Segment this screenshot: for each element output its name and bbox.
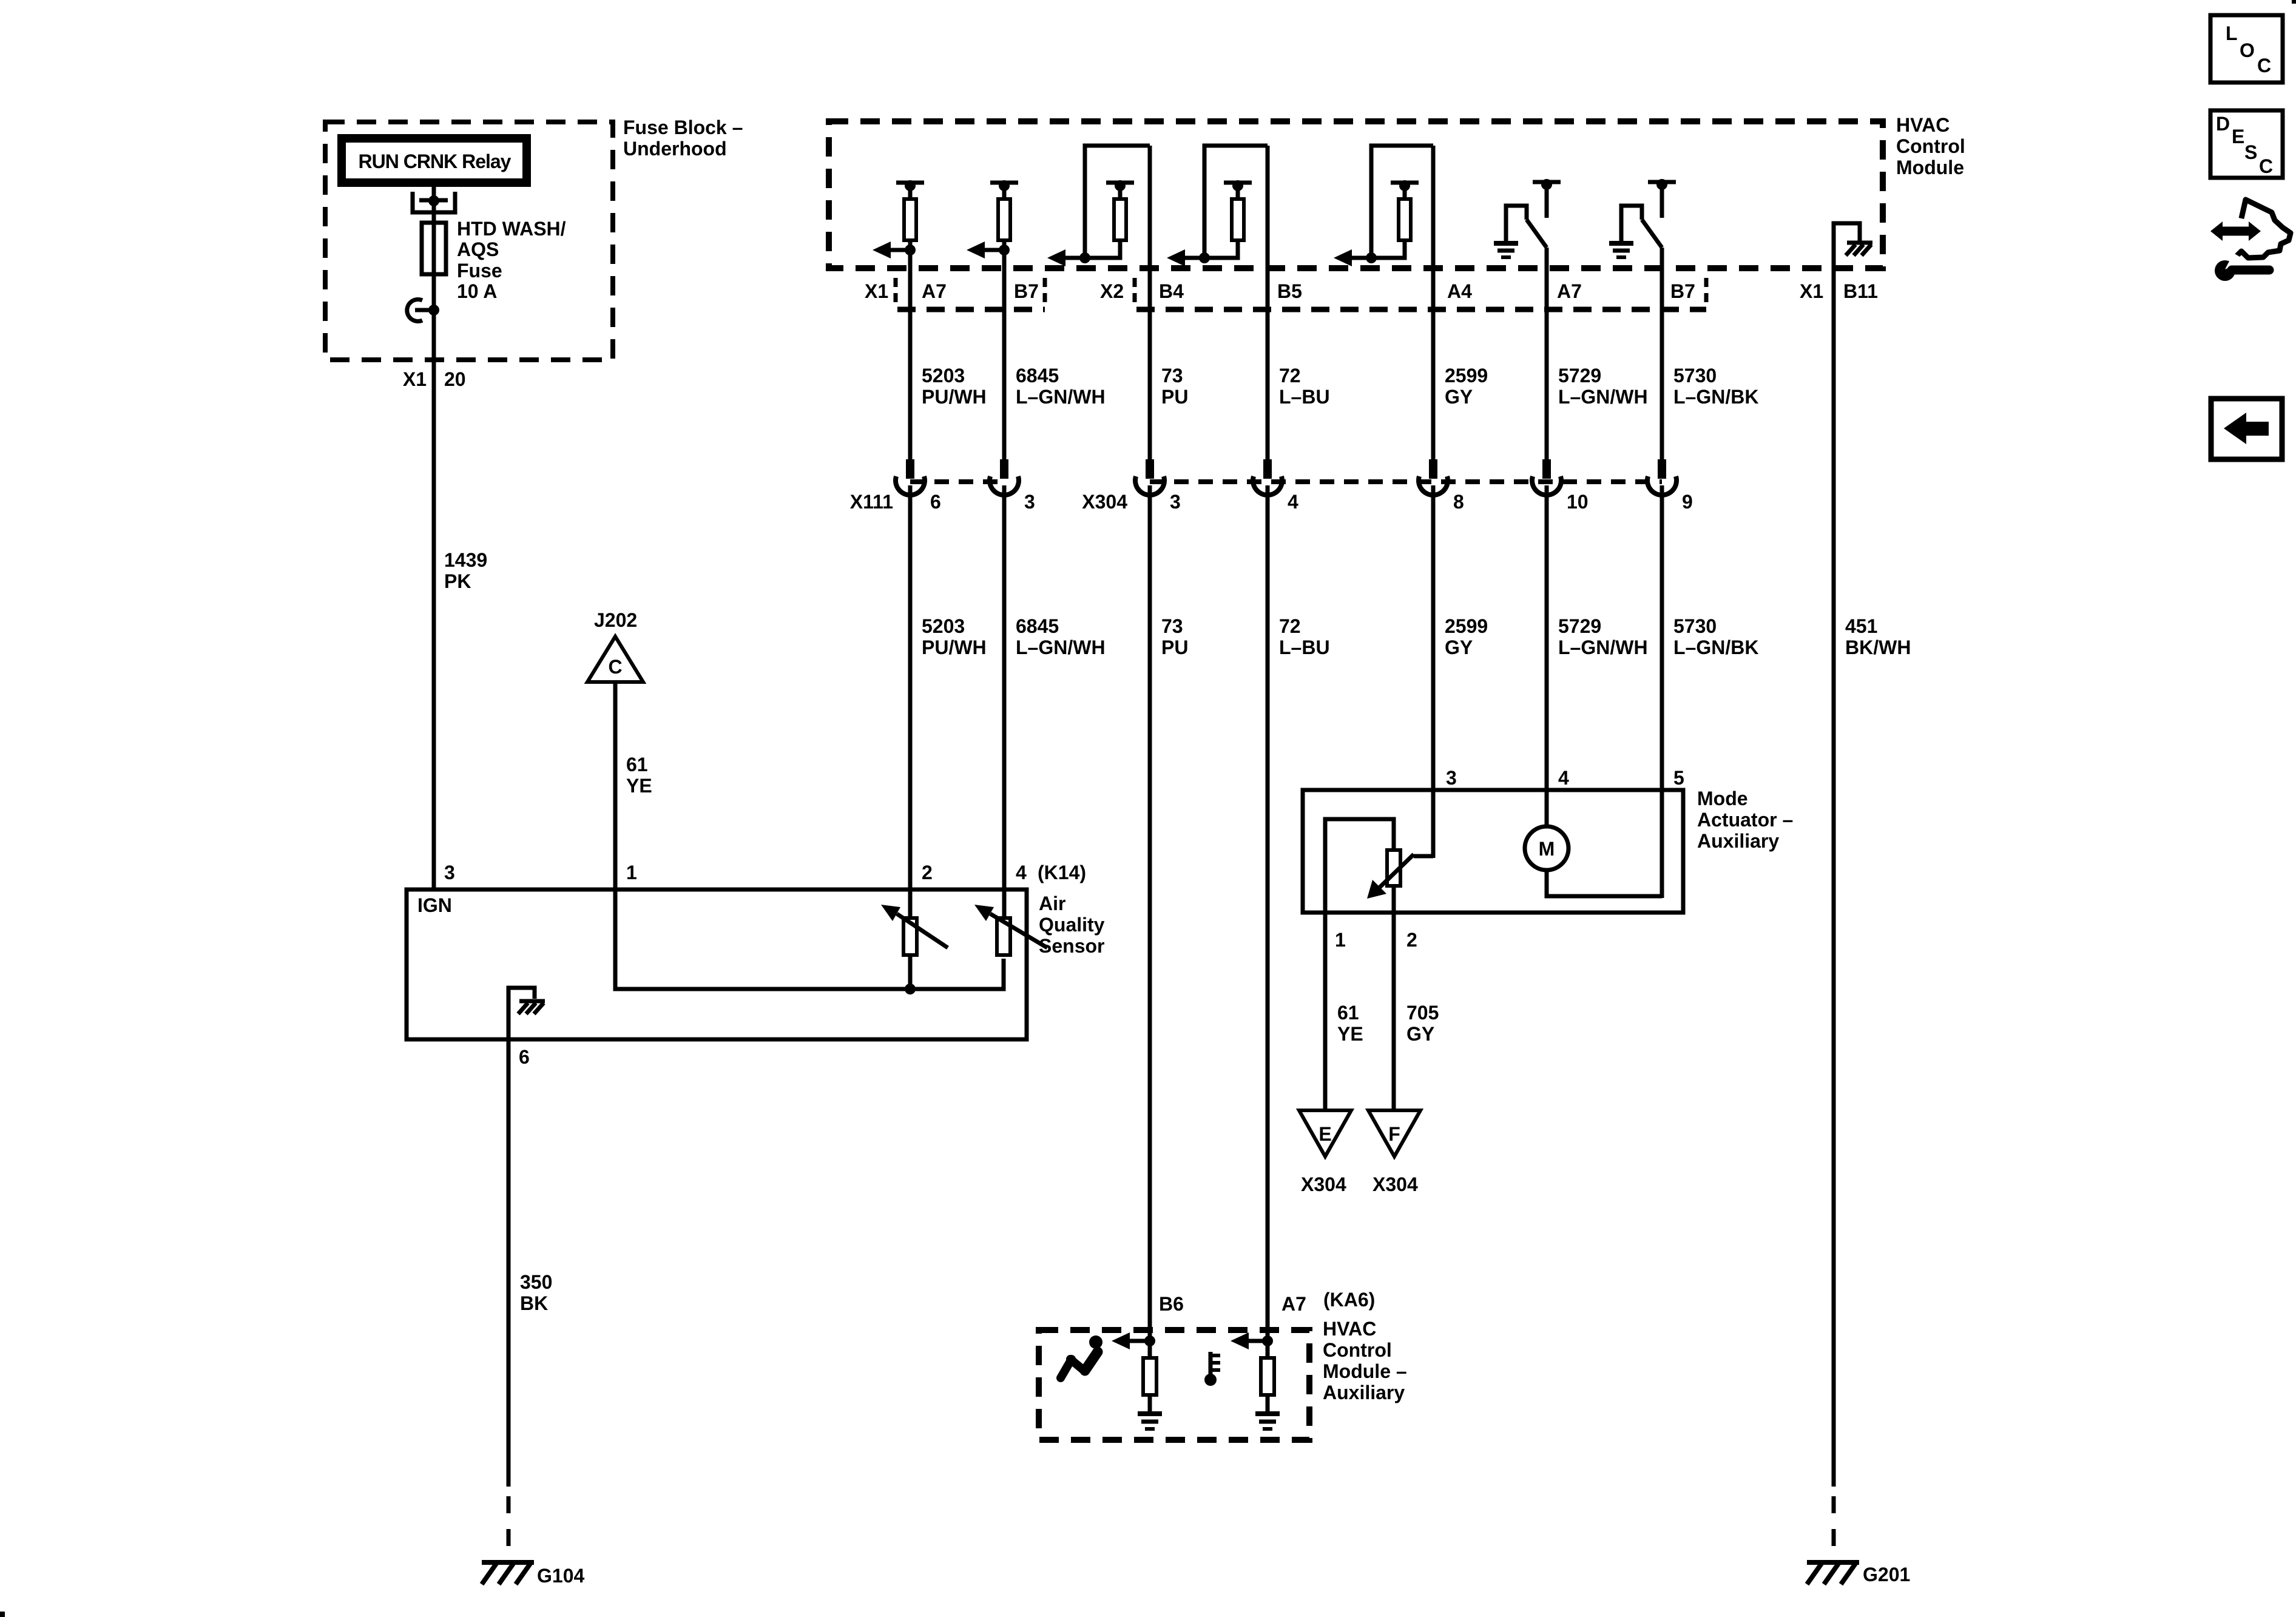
wire dashed to G201 <box>1832 1487 1836 1562</box>
svg-text:3: 3 <box>1446 767 1457 789</box>
svg-text:O: O <box>2240 39 2255 61</box>
wire 72 L-BU to KA6 A7 <box>1266 485 1270 1360</box>
wire 705 GY to splice F <box>1392 913 1396 1112</box>
svg-text:5729: 5729 <box>1558 615 1601 637</box>
svg-text:2599: 2599 <box>1445 365 1488 387</box>
connector terminal X304-9 <box>1647 459 1676 495</box>
svg-text:A7: A7 <box>922 280 947 302</box>
svg-text:3: 3 <box>444 862 455 883</box>
variable resistor at pin 4 <box>974 905 1047 955</box>
wiper arrow from pin 3 <box>1414 854 1433 859</box>
svg-text:L–GN/WH: L–GN/WH <box>1016 636 1106 658</box>
svg-text:M: M <box>1539 838 1555 860</box>
Fuse Block - Underhood dashed box <box>325 122 613 360</box>
svg-text:(K14): (K14) <box>1038 862 1086 883</box>
connector terminal X304-4 <box>1253 459 1282 495</box>
internal wire pin1 to resistor bottoms <box>615 890 1004 989</box>
motor M <box>1525 826 1568 870</box>
wire pin B5 X2 <box>1266 146 1270 461</box>
icon DESC box <box>2210 110 2283 178</box>
svg-text:G201: G201 <box>1863 1564 1910 1585</box>
svg-text:B7: B7 <box>1014 280 1039 302</box>
svg-text:6: 6 <box>519 1046 530 1068</box>
svg-text:L–BU: L–BU <box>1279 386 1330 408</box>
svg-text:4: 4 <box>1288 491 1298 513</box>
svg-text:C: C <box>608 656 622 678</box>
svg-text:PU/WH: PU/WH <box>922 636 987 658</box>
Mode Actuator Auxiliary box <box>1303 790 1683 913</box>
svg-text:1439: 1439 <box>444 549 487 571</box>
svg-text:Control: Control <box>1896 135 1965 157</box>
svg-text:5203: 5203 <box>922 365 965 387</box>
svg-text:BK: BK <box>520 1292 548 1314</box>
svg-text:BK/WH: BK/WH <box>1845 636 1911 658</box>
svg-text:GY: GY <box>1445 636 1473 658</box>
svg-text:L–GN/WH: L–GN/WH <box>1016 386 1106 408</box>
svg-text:S: S <box>2244 141 2257 163</box>
svg-text:705: 705 <box>1406 1002 1439 1024</box>
svg-text:Underhood: Underhood <box>623 138 727 160</box>
wire pin B4 X2 <box>1148 146 1152 461</box>
svg-text:YE: YE <box>626 775 652 797</box>
svg-text:Fuse Block –: Fuse Block – <box>623 116 743 138</box>
svg-text:X1: X1 <box>403 368 427 390</box>
svg-text:YE: YE <box>1337 1023 1363 1045</box>
svg-text:X111: X111 <box>850 491 893 513</box>
svg-text:X1: X1 <box>865 280 888 302</box>
svg-text:L–BU: L–BU <box>1279 636 1330 658</box>
svg-text:1: 1 <box>626 862 637 883</box>
pin band separators <box>894 278 898 307</box>
pin band bottom dashed lines <box>897 307 1045 312</box>
switch internal to ground at pin B7 X2 <box>1609 179 1676 257</box>
svg-text:5730: 5730 <box>1673 365 1717 387</box>
ground internal chassis at pin B11 <box>1834 223 1872 271</box>
svg-text:5729: 5729 <box>1558 365 1601 387</box>
icon LOC box <box>2210 15 2283 83</box>
wire pin B7 X1 <box>1002 250 1007 461</box>
svg-text:72: 72 <box>1279 365 1301 387</box>
svg-text:B5: B5 <box>1277 280 1302 302</box>
wire pin A4 X2 <box>1431 146 1436 461</box>
svg-text:HVAC: HVAC <box>1896 114 1950 136</box>
svg-text:B4: B4 <box>1159 280 1184 302</box>
wire pin A7 X1 <box>908 250 913 461</box>
svg-text:Fuse: Fuse <box>457 260 502 282</box>
svg-text:B6: B6 <box>1159 1293 1184 1315</box>
svg-text:A7: A7 <box>1281 1293 1306 1315</box>
svg-text:L–GN/WH: L–GN/WH <box>1558 386 1648 408</box>
wire 2599 GY to mode actuator pin 3 <box>1431 485 1436 858</box>
svg-text:E: E <box>2232 126 2244 147</box>
svg-text:B11: B11 <box>1843 280 1878 302</box>
svg-text:IGN: IGN <box>417 894 452 916</box>
svg-text:5730: 5730 <box>1673 615 1717 637</box>
fuse clip top <box>413 192 455 212</box>
svg-text:E: E <box>1319 1123 1331 1145</box>
node B6 junction with arrow <box>1144 1335 1155 1346</box>
svg-text:2: 2 <box>1406 929 1417 951</box>
wire 5729 to mode actuator pin 4 <box>1545 485 1549 828</box>
ground internal chassis pin 6 <box>508 988 545 1039</box>
resistor internal pullup at pin B7 X1 <box>967 180 1018 258</box>
svg-text:4: 4 <box>1016 862 1027 883</box>
svg-text:20: 20 <box>444 368 466 390</box>
inline connector X304 dashed link <box>1150 479 1662 484</box>
svg-text:AQS: AQS <box>457 238 499 260</box>
svg-text:(KA6): (KA6) <box>1323 1289 1375 1311</box>
svg-text:A4: A4 <box>1447 280 1472 302</box>
svg-text:A7: A7 <box>1557 280 1582 302</box>
svg-text:C: C <box>2257 55 2271 76</box>
svg-text:X1: X1 <box>1800 280 1823 302</box>
svg-text:PK: PK <box>444 570 471 592</box>
connector terminal X111-3 <box>990 459 1019 495</box>
wire 61 YE from J202 <box>613 682 618 890</box>
svg-text:X304: X304 <box>1082 491 1127 513</box>
HVAC Control Module dashed box <box>829 121 1883 268</box>
svg-text:Auxiliary: Auxiliary <box>1323 1382 1405 1403</box>
relay K RUN CRNK Relay box <box>337 134 531 187</box>
wire 5203 to AQS pin 2 <box>908 485 913 918</box>
svg-text:1: 1 <box>1335 929 1346 951</box>
connector terminal X111-6 <box>896 459 925 495</box>
wire motor to pin 5 <box>1547 870 1662 896</box>
svg-text:73: 73 <box>1161 615 1183 637</box>
svg-text:451: 451 <box>1845 615 1877 637</box>
wire 451 BK/WH from B11 to G201 <box>1832 271 1836 1487</box>
svg-text:6845: 6845 <box>1016 615 1059 637</box>
wire 73 PU to KA6 B6 <box>1148 485 1152 1360</box>
svg-text:Air: Air <box>1039 893 1065 914</box>
svg-text:2599: 2599 <box>1445 615 1488 637</box>
svg-text:X2: X2 <box>1100 280 1124 302</box>
icon hand with double arrow and wrench <box>2210 200 2291 281</box>
wire 5730 to mode actuator pin 5 <box>1660 485 1664 898</box>
svg-text:Module –: Module – <box>1323 1360 1407 1382</box>
splice triangle E <box>1299 1110 1351 1156</box>
resistor internal B6 <box>1143 1358 1156 1395</box>
svg-text:3: 3 <box>1024 491 1035 513</box>
svg-text:Actuator –: Actuator – <box>1697 809 1793 831</box>
svg-text:B7: B7 <box>1670 280 1695 302</box>
svg-text:L–GN/WH: L–GN/WH <box>1558 636 1648 658</box>
wire pin A7 X2 <box>1545 248 1549 461</box>
svg-text:HVAC: HVAC <box>1323 1318 1376 1340</box>
connector terminal X304-3 <box>1135 459 1164 495</box>
icon back arrow box <box>2211 399 2282 459</box>
svg-text:72: 72 <box>1279 615 1301 637</box>
svg-text:F: F <box>1388 1123 1400 1145</box>
svg-text:8: 8 <box>1453 491 1464 513</box>
svg-text:X304: X304 <box>1373 1173 1418 1195</box>
svg-text:10 A: 10 A <box>457 280 497 302</box>
svg-text:Auxiliary: Auxiliary <box>1697 830 1779 852</box>
svg-text:61: 61 <box>626 754 648 775</box>
svg-text:PU/WH: PU/WH <box>922 386 987 408</box>
svg-text:3: 3 <box>1170 491 1181 513</box>
svg-text:Mode: Mode <box>1697 788 1748 809</box>
variable resistor at pin 2 <box>881 905 948 989</box>
svg-text:D: D <box>2216 113 2230 135</box>
inline connector X111 dashed link <box>910 479 1004 484</box>
svg-text:10: 10 <box>1567 491 1589 513</box>
ground G201 <box>1807 1562 1859 1584</box>
wire 350 BK <box>507 1039 511 1487</box>
Air Quality Sensor K14 box <box>407 890 1027 1039</box>
resistor loop circuit at pin B4 X2 <box>1047 146 1150 266</box>
seat vent icon <box>1061 1335 1102 1378</box>
thermometer icon <box>1204 1352 1220 1386</box>
svg-text:G104: G104 <box>537 1565 584 1587</box>
ground G104 <box>482 1562 534 1584</box>
svg-text:73: 73 <box>1161 365 1183 387</box>
switch internal to ground at pin A7 X2 <box>1494 179 1561 257</box>
svg-text:C: C <box>2259 155 2273 177</box>
wire 1439 PK <box>432 364 436 890</box>
connector terminal X304-8 <box>1419 459 1448 495</box>
svg-text:61: 61 <box>1337 1002 1359 1024</box>
svg-text:PU: PU <box>1161 386 1188 408</box>
wire 61 YE to splice E <box>1323 913 1328 1112</box>
svg-text:6845: 6845 <box>1016 365 1059 387</box>
svg-text:L–GN/BK: L–GN/BK <box>1673 386 1758 408</box>
resistor internal pullup at pin A7 X1 <box>873 180 924 258</box>
page artifact mark top right <box>2292 0 2296 4</box>
svg-text:Control: Control <box>1323 1339 1392 1361</box>
page artifact dot bottom left <box>0 1612 5 1617</box>
svg-text:HTD WASH/: HTD WASH/ <box>457 218 566 240</box>
ground internal B6 <box>1138 1414 1162 1429</box>
svg-text:J202: J202 <box>594 609 637 631</box>
wire relay to fuse to X1-20 <box>432 187 436 364</box>
resistor internal A7 <box>1261 1358 1274 1395</box>
wire 6845 to AQS pin 4 <box>1002 485 1007 918</box>
ground internal A7 <box>1255 1414 1280 1429</box>
svg-text:5: 5 <box>1673 767 1684 789</box>
junction node <box>905 984 916 994</box>
wire pin B7 X2 <box>1660 248 1664 461</box>
potentiometer loop pin1 pin2 <box>1325 819 1394 913</box>
svg-text:6: 6 <box>930 491 941 513</box>
connector terminal X304-10 <box>1532 459 1561 495</box>
svg-text:9: 9 <box>1682 491 1693 513</box>
svg-text:5203: 5203 <box>922 615 965 637</box>
svg-text:L: L <box>2226 22 2238 44</box>
potentiometer resistor <box>1387 850 1400 886</box>
fuse clip bottom <box>407 300 422 322</box>
splice triangle F <box>1368 1110 1420 1156</box>
svg-text:Quality: Quality <box>1039 914 1105 936</box>
svg-text:Sensor: Sensor <box>1039 935 1104 957</box>
svg-text:GY: GY <box>1406 1023 1434 1045</box>
fuse F HTD WASH/AQS 10A <box>422 223 446 274</box>
resistor loop circuit at pin B5 X2 <box>1167 146 1268 266</box>
node A7 junction with arrow <box>1262 1335 1273 1346</box>
svg-text:L–GN/BK: L–GN/BK <box>1673 636 1758 658</box>
resistor loop circuit at pin A4 X2 <box>1334 146 1433 266</box>
svg-text:2: 2 <box>922 862 933 883</box>
svg-text:4: 4 <box>1558 767 1569 789</box>
svg-text:350: 350 <box>520 1271 552 1293</box>
svg-text:Module: Module <box>1896 157 1964 178</box>
svg-text:RUN CRNK Relay: RUN CRNK Relay <box>359 150 512 172</box>
svg-text:GY: GY <box>1445 386 1473 408</box>
wire dashed to G104 <box>507 1487 511 1562</box>
HVAC Control Module Auxiliary dashed box <box>1039 1330 1309 1440</box>
svg-text:X304: X304 <box>1301 1173 1346 1195</box>
svg-text:PU: PU <box>1161 636 1188 658</box>
